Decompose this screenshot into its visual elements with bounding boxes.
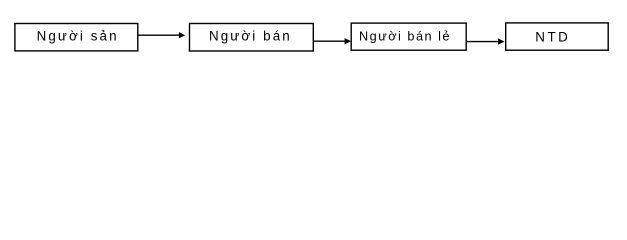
svg-text:Người sản: Người sản (37, 29, 119, 44)
svg-text:Người bán: Người bán (209, 29, 292, 44)
svg-text:NTD: NTD (535, 30, 570, 45)
svg-text:Người bán lẻ: Người bán lẻ (359, 30, 451, 44)
